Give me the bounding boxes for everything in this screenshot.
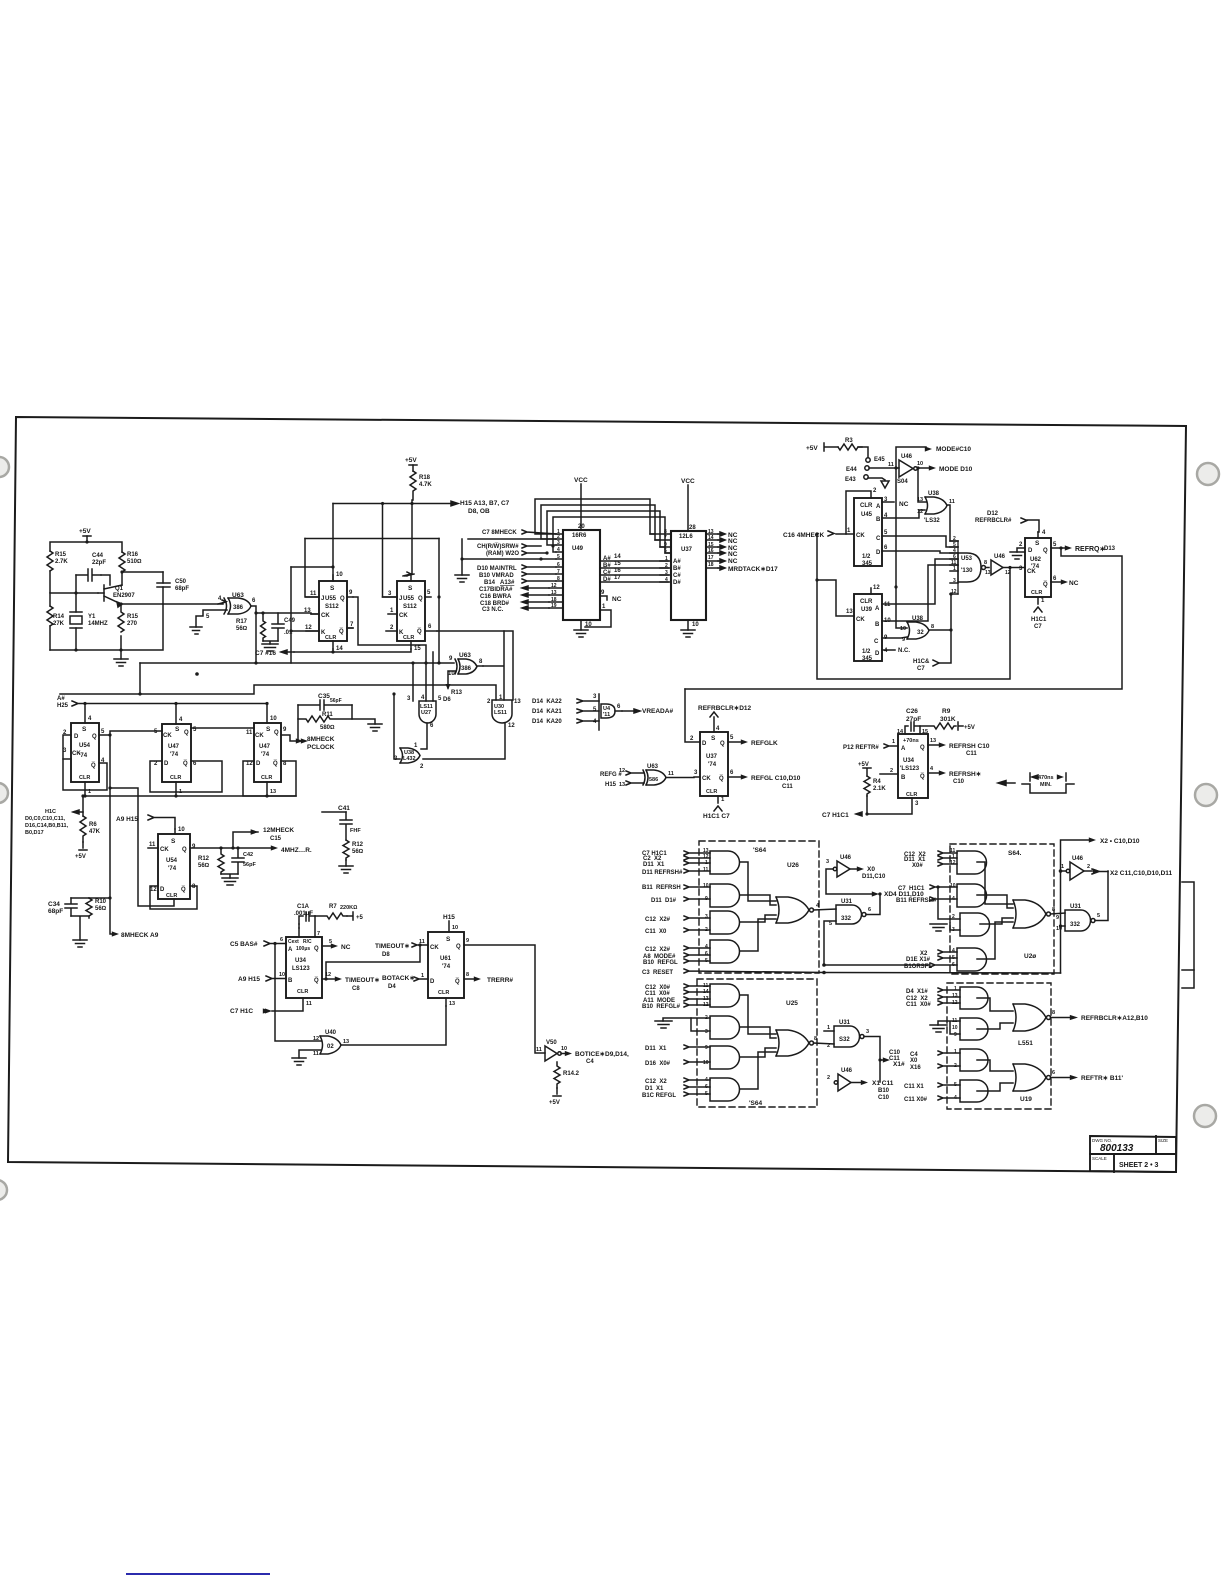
svg-text:'74: '74 — [168, 866, 177, 872]
wire down to ground from row — [462, 539, 556, 559]
svg-text:13: 13 — [270, 789, 276, 795]
svg-text:68pF: 68pF — [175, 586, 189, 592]
inverter U46a S04 — [899, 460, 917, 477]
svg-text:U39: U39 — [861, 607, 873, 613]
svg-text:C12 X2#: C12 X2# — [645, 947, 671, 953]
svg-text:10: 10 — [585, 622, 592, 628]
wire U27 inputs up — [413, 652, 433, 701]
svg-text:TRERR#: TRERR# — [487, 977, 513, 984]
wire CLR rail under U55 — [294, 649, 411, 652]
title block small labels — [1092, 1138, 1168, 1161]
arrow into U63 pin4 — [218, 600, 226, 604]
svg-text:18: 18 — [708, 562, 714, 568]
U26 gate outputs to nor — [740, 862, 776, 951]
svg-text:U31: U31 — [839, 1020, 851, 1026]
svg-text:U27: U27 — [421, 710, 431, 716]
svg-text:Q̅: Q̅ — [273, 760, 278, 767]
resistor R15b 270 — [118, 604, 124, 650]
svg-text:1: 1 — [421, 973, 424, 979]
svg-text:+5V: +5V — [75, 854, 86, 860]
svg-text:MODE D10: MODE D10 — [939, 466, 973, 473]
svg-text:9: 9 — [349, 590, 353, 596]
svg-text:EN2907: EN2907 — [113, 593, 135, 599]
svg-text:8: 8 — [931, 624, 934, 630]
svg-text:SIZE: SIZE — [1158, 1138, 1168, 1143]
svg-text:12: 12 — [703, 1002, 709, 1008]
svg-text:Q: Q — [314, 946, 319, 952]
svg-text:6: 6 — [430, 723, 434, 729]
svg-text:R16: R16 — [127, 552, 139, 558]
flip-flop U61 '74 — [428, 932, 464, 998]
svg-text:13: 13 — [985, 570, 991, 576]
U19 input chevrons and wires — [938, 988, 960, 1100]
svg-text:11: 11 — [419, 939, 425, 945]
VCC U37 — [687, 485, 689, 531]
svg-text:C11: C11 — [966, 751, 977, 757]
U4 input chevron wires — [577, 699, 599, 723]
svg-text:R11: R11 — [322, 712, 333, 718]
U34b B input — [880, 773, 898, 775]
U37 left pin numbers — [664, 529, 668, 583]
resistor R9 — [920, 723, 956, 729]
svg-text:Q̅: Q̅ — [181, 886, 186, 893]
svg-text:345: 345 — [862, 656, 873, 662]
+5V under R6 — [79, 842, 87, 850]
ground U25b — [655, 1018, 710, 1031]
U55b pins — [405, 574, 414, 581]
svg-text:10: 10 — [952, 1025, 958, 1031]
svg-text:B: B — [875, 622, 880, 628]
svg-text:5: 5 — [557, 554, 560, 560]
svg-text:S32: S32 — [839, 1037, 850, 1043]
svg-text:U61: U61 — [440, 956, 452, 962]
svg-text:5: 5 — [329, 939, 332, 945]
U62 Q out REFRQ — [1051, 547, 1066, 549]
svg-text:D: D — [1028, 548, 1033, 554]
svg-text:12: 12 — [873, 585, 880, 591]
svg-text:L551: L551 — [1018, 1040, 1033, 1047]
chevron H1C& C7 — [933, 660, 939, 666]
svg-text:D11 D1#: D11 D1# — [651, 898, 677, 904]
wire U63 output — [251, 606, 319, 614]
svg-text:14: 14 — [614, 554, 621, 560]
svg-text:C7 #16: C7 #16 — [255, 650, 276, 657]
svg-text:U38: U38 — [912, 616, 924, 622]
inverter U46c S04 — [991, 560, 1003, 575]
svg-text:3: 3 — [593, 694, 597, 700]
svg-text:3: 3 — [705, 914, 708, 920]
svg-text:4: 4 — [1042, 530, 1046, 536]
svg-text:4: 4 — [705, 1077, 708, 1083]
svg-text:A9 H15: A9 H15 — [238, 976, 260, 983]
svg-text:580Ω: 580Ω — [320, 725, 335, 731]
ground U40 — [292, 1058, 306, 1065]
U31a pin5 wire to vertical — [824, 921, 836, 965]
svg-text:CK: CK — [702, 776, 711, 782]
svg-text:C26: C26 — [906, 708, 918, 715]
svg-text:S112: S112 — [325, 604, 339, 610]
svg-text:'74: '74 — [708, 762, 717, 768]
svg-text:U46: U46 — [840, 855, 852, 861]
svg-text:8: 8 — [1052, 1010, 1055, 1016]
svg-text:MIN.: MIN. — [1040, 782, 1052, 788]
svg-text:C#: C# — [673, 573, 681, 579]
svg-text:+70ns: +70ns — [903, 738, 919, 744]
svg-text:A#: A# — [57, 696, 65, 702]
svg-text:56Ω: 56Ω — [198, 863, 210, 869]
U19 input pin numbers — [952, 986, 958, 1101]
svg-text:D: D — [164, 761, 169, 767]
svg-text:Q: Q — [274, 730, 279, 736]
resistor R4 — [864, 776, 870, 796]
svg-text:2: 2 — [665, 563, 668, 569]
svg-text:R9: R9 — [942, 708, 951, 715]
capacitor C44 — [76, 569, 101, 592]
svg-text:SCALE: SCALE — [1092, 1156, 1107, 1161]
ground left bundle — [455, 559, 469, 582]
svg-text:V50: V50 — [546, 1040, 557, 1046]
svg-text:6: 6 — [428, 624, 432, 630]
capacitor C35 — [298, 700, 352, 710]
svg-text:B#: B# — [603, 563, 611, 569]
svg-text:Q̅: Q̅ — [455, 978, 460, 985]
svg-text:2.1K: 2.1K — [873, 786, 886, 792]
wire loop L3 REFRQ feedback — [685, 548, 1122, 689]
svg-text:Q̅: Q̅ — [1043, 581, 1048, 588]
svg-text:9: 9 — [449, 656, 453, 662]
svg-text:10: 10 — [703, 883, 709, 889]
U47b Q to U47c CK — [191, 727, 254, 729]
svg-text:U37: U37 — [681, 547, 693, 553]
wire REFRBCLR down to U37b S — [710, 712, 718, 717]
svg-text:586: 586 — [649, 777, 658, 783]
svg-text:2: 2 — [390, 625, 394, 631]
U20 input pin numbers — [950, 848, 956, 968]
capacitor C50 — [157, 572, 170, 604]
svg-text:C7 H1C1: C7 H1C1 — [898, 886, 925, 892]
U49 input chevrons and stub wires — [522, 530, 556, 610]
svg-text:9: 9 — [466, 938, 469, 944]
wire V1 vertical from U46 input down — [896, 468, 907, 628]
svg-text:4MHZ…R.: 4MHZ…R. — [281, 847, 312, 854]
U62 CLR pin1 + H1C1 — [1034, 597, 1042, 612]
svg-text:U63: U63 — [647, 764, 659, 770]
svg-text:13: 13 — [449, 1001, 455, 1007]
X2# vertical and top arrow — [1061, 840, 1091, 973]
svg-text:10: 10 — [900, 626, 906, 632]
ground R12/C42 — [221, 874, 238, 885]
U25 gate outputs to nor — [740, 995, 776, 1089]
wire H15 line to U55a J — [305, 539, 319, 598]
svg-text:11: 11 — [949, 499, 955, 505]
+5V R4 — [863, 768, 871, 776]
svg-text:U47: U47 — [168, 744, 180, 750]
crystal Y1 — [70, 593, 82, 650]
wire U53 out to U46c — [986, 567, 990, 569]
wire base rail — [50, 592, 98, 594]
C35/R11 nodes — [298, 705, 375, 741]
svg-text:10: 10 — [178, 827, 185, 833]
U31c out riser to X2 line — [1095, 871, 1108, 921]
svg-text:C10: C10 — [953, 779, 965, 785]
svg-text:8: 8 — [1052, 907, 1055, 913]
svg-text:12: 12 — [551, 583, 557, 589]
svg-text:Cext: Cext — [288, 939, 299, 945]
svg-text:X1 C11: X1 C11 — [872, 1080, 894, 1087]
and gate U26d — [710, 940, 740, 963]
svg-text:5: 5 — [954, 1082, 957, 1088]
ground osc — [114, 650, 128, 666]
svg-text:4: 4 — [557, 547, 560, 553]
svg-text:E43: E43 — [845, 477, 856, 483]
U40 output to U61 CLR — [341, 1006, 446, 1045]
svg-text:10: 10 — [950, 883, 956, 889]
svg-text:'S64: 'S64 — [753, 847, 766, 854]
svg-text:12: 12 — [150, 887, 157, 893]
svg-text:7: 7 — [317, 931, 320, 937]
U61 Qbar TRERR# — [464, 978, 475, 980]
U37 NC output arrows — [718, 532, 725, 570]
svg-text:A: A — [876, 504, 881, 510]
svg-text:R12: R12 — [352, 842, 364, 848]
svg-text:4: 4 — [705, 944, 708, 950]
dashed box U26 — [699, 841, 819, 973]
svg-text:H15: H15 — [605, 782, 617, 788]
svg-text:D13: D13 — [1104, 546, 1116, 552]
svg-text:4: 4 — [954, 1095, 957, 1101]
svg-text:C50: C50 — [175, 579, 187, 585]
svg-text:Q1: Q1 — [115, 586, 124, 592]
nand gate U31c 332 — [1065, 910, 1095, 931]
resistor R3 — [838, 444, 862, 450]
svg-text:C35: C35 — [318, 693, 330, 700]
resistor R16 — [119, 552, 125, 585]
U54d Q output 4MHZ — [190, 847, 272, 849]
U19 input net labels — [904, 989, 931, 1103]
svg-text:2: 2 — [487, 699, 491, 705]
svg-text:3: 3 — [866, 1029, 869, 1035]
C34/R10 rails — [71, 898, 89, 940]
wire nor U25 to U31b — [814, 1043, 835, 1044]
svg-text:D: D — [876, 550, 881, 556]
inverter V50 04 — [545, 1046, 561, 1061]
svg-text:3: 3 — [388, 591, 392, 597]
nand gate U31a 332 — [836, 905, 866, 924]
svg-text:4: 4 — [665, 577, 668, 583]
svg-text:11: 11 — [888, 462, 894, 468]
svg-text:'S64: 'S64 — [749, 1100, 762, 1107]
svg-text:NC: NC — [728, 538, 738, 545]
svg-text:S64.: S64. — [1008, 850, 1022, 857]
svg-text:13: 13 — [551, 590, 557, 596]
svg-text:6: 6 — [868, 907, 871, 913]
U37b CLR pin1 H1C1 — [714, 796, 722, 811]
wire MODE D10 — [918, 467, 931, 469]
svg-text:REFRBCLR∗D12: REFRBCLR∗D12 — [698, 705, 752, 712]
svg-text:S112: S112 — [403, 604, 417, 610]
U40 inputs — [275, 944, 321, 1042]
svg-text:Q̅: Q̅ — [314, 977, 319, 984]
inverter U46e S04 — [1066, 862, 1084, 880]
svg-text:56Ω: 56Ω — [352, 849, 364, 855]
svg-text:13: 13 — [952, 993, 958, 999]
svg-text:C7 H1C1: C7 H1C1 — [822, 812, 849, 819]
svg-text:270: 270 — [127, 621, 138, 627]
svg-text:U62: U62 — [1030, 557, 1042, 563]
svg-text:10: 10 — [448, 671, 455, 677]
svg-text:10: 10 — [279, 972, 285, 978]
svg-text:D14 KA22: D14 KA22 — [532, 699, 562, 705]
svg-text:REFRBCLR∗A12,B10: REFRBCLR∗A12,B10 — [1081, 1015, 1148, 1022]
svg-text:L432: L432 — [403, 756, 416, 762]
svg-text:10: 10 — [692, 622, 699, 628]
svg-text:XD4 D11,D10: XD4 D11,D10 — [884, 891, 924, 898]
wire nor out to U31a — [814, 909, 837, 910]
svg-text:13: 13 — [304, 608, 311, 614]
svg-text:C49: C49 — [284, 618, 296, 624]
svg-text:10: 10 — [270, 716, 277, 722]
svg-text:CLR: CLR — [170, 775, 181, 781]
svg-text:15: 15 — [414, 646, 421, 652]
junction dots harness — [551, 544, 554, 547]
svg-text:3: 3 — [915, 801, 919, 807]
svg-text:C7: C7 — [1034, 624, 1042, 630]
svg-text:A9 H15: A9 H15 — [116, 816, 138, 823]
svg-text:13: 13 — [619, 782, 625, 788]
U49 input labels — [477, 530, 519, 613]
svg-text:S: S — [446, 936, 451, 943]
svg-text:D14 KA21: D14 KA21 — [532, 709, 562, 715]
svg-text:U46: U46 — [994, 554, 1006, 560]
svg-text:8: 8 — [466, 972, 469, 978]
U63d inputs — [626, 771, 644, 775]
svg-text:5: 5 — [593, 707, 597, 713]
svg-text:5: 5 — [884, 530, 888, 536]
node top rail — [85, 540, 88, 543]
and gate U25a — [710, 984, 740, 1007]
svg-text:CK: CK — [160, 847, 169, 853]
U46b out X0 — [850, 868, 858, 870]
svg-text:Q̅: Q̅ — [920, 773, 925, 780]
ground U20c — [930, 924, 947, 931]
wire Q1 of U55a to K of U55b loop — [353, 597, 426, 663]
wire into U63b lower input with down arrow — [448, 671, 456, 688]
svg-text:12: 12 — [952, 1000, 958, 1006]
wire C44 to base node — [101, 575, 110, 585]
and gate U25b — [710, 1016, 740, 1039]
U55a pins — [332, 575, 334, 581]
U20 input chevrons and wires — [930, 851, 957, 967]
svg-text:8MHECK: 8MHECK — [307, 736, 335, 743]
punch hole right bottom — [1194, 1105, 1216, 1127]
svg-text:5: 5 — [427, 590, 431, 596]
svg-text:U34: U34 — [903, 758, 915, 764]
flip-flop U37b '74 — [700, 732, 728, 796]
svg-text:CK: CK — [1027, 569, 1036, 575]
svg-text:332: 332 — [841, 916, 852, 922]
xor gate U63d 586 — [643, 770, 666, 785]
svg-text:1: 1 — [721, 797, 725, 803]
U37b CK input — [694, 776, 700, 778]
svg-text:NC: NC — [728, 558, 738, 565]
ground R17/C49 — [262, 641, 278, 651]
svg-text:9: 9 — [283, 727, 287, 733]
capacitor C34 — [65, 898, 77, 916]
svg-text:VCC: VCC — [681, 478, 695, 485]
svg-text:U40: U40 — [325, 1030, 337, 1036]
svg-text:32: 32 — [917, 630, 924, 636]
svg-text:10: 10 — [452, 925, 458, 931]
svg-text:800133: 800133 — [1100, 1143, 1134, 1154]
wire U39 D NC — [882, 649, 895, 651]
capacitor C42 — [232, 848, 244, 874]
resistor R14 — [47, 593, 53, 650]
wire U30 output down-left to U38 — [423, 723, 505, 759]
nor gate U20 out — [1013, 900, 1051, 928]
svg-text:7: 7 — [557, 569, 560, 575]
U34b Q output REFRSH — [928, 744, 940, 746]
P12 REFTR input — [884, 744, 898, 748]
output U4 to VREADA# — [615, 709, 640, 713]
svg-text:12: 12 — [950, 860, 956, 866]
svg-text:C11 X1: C11 X1 — [904, 1084, 924, 1090]
svg-text:U54: U54 — [79, 743, 91, 749]
svg-text:10: 10 — [336, 572, 343, 578]
svg-text:FHF: FHF — [350, 828, 361, 834]
svg-text:R10: R10 — [95, 899, 107, 905]
ground right of R11 — [368, 724, 382, 731]
arrow C7 #16 left — [281, 650, 294, 654]
U37 inside labels — [673, 559, 681, 586]
svg-text:CK: CK — [255, 733, 264, 739]
wire box around U55s left — [290, 567, 292, 663]
svg-text:R14.2: R14.2 — [563, 1071, 580, 1077]
svg-text:332: 332 — [1070, 922, 1081, 928]
U19 gate outputs to nors — [977, 998, 1013, 1091]
svg-text:U63: U63 — [459, 652, 471, 659]
svg-text:'11: '11 — [603, 712, 610, 718]
ground C34 — [73, 940, 87, 947]
svg-text:B0,D17: B0,D17 — [25, 830, 44, 836]
dashed box U19 — [947, 983, 1051, 1109]
and gate U27 LS11 (points down) — [419, 701, 436, 723]
svg-text:X1#: X1# — [893, 1061, 905, 1068]
and gate U20d — [957, 948, 987, 971]
svg-text:6: 6 — [252, 598, 256, 604]
svg-text:5: 5 — [1097, 913, 1100, 919]
svg-text:4: 4 — [930, 766, 934, 772]
flip-flop U54d — [158, 834, 190, 899]
svg-text:12: 12 — [325, 972, 331, 978]
svg-text:2: 2 — [420, 764, 424, 770]
wire Q staircase down — [110, 735, 174, 906]
svg-text:11: 11 — [246, 730, 253, 736]
svg-text:8: 8 — [192, 884, 196, 890]
svg-text:CLR: CLR — [906, 792, 917, 798]
svg-text:220KΩ: 220KΩ — [340, 905, 357, 911]
wire CK chain 1 — [63, 758, 71, 760]
svg-text:56Ω: 56Ω — [236, 626, 248, 632]
svg-text:5: 5 — [438, 696, 442, 702]
svg-text:'74: '74 — [442, 964, 451, 970]
svg-text:16: 16 — [708, 548, 714, 554]
svg-text:D: D — [74, 734, 79, 740]
svg-text:Q: Q — [1043, 548, 1048, 554]
+5V tick R9 — [958, 722, 963, 730]
svg-text:3: 3 — [557, 540, 560, 546]
svg-text:1/2: 1/2 — [862, 649, 871, 655]
svg-text:PCLOCK: PCLOCK — [307, 744, 335, 751]
